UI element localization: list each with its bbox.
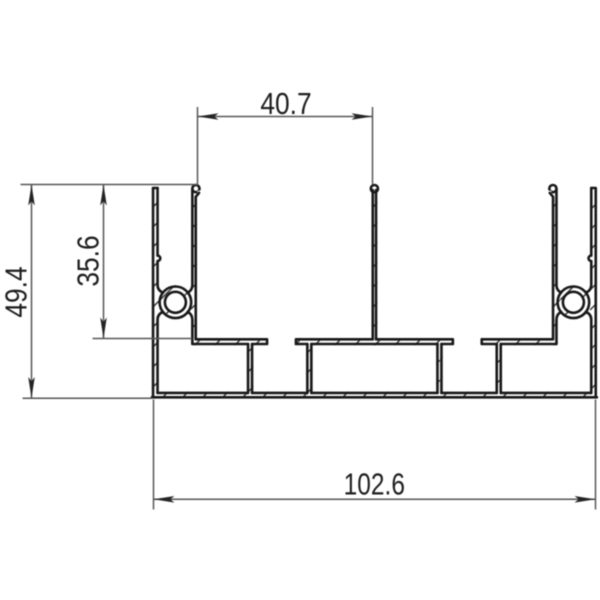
arrowhead 49.4 bottom bbox=[28, 377, 35, 398]
rib 3 edges bbox=[437, 344, 441, 393]
center fin faces bbox=[373, 190, 376, 339]
rib 4 fill bbox=[496, 344, 502, 394]
extension line 102.6 right bbox=[595, 400, 597, 510]
dimension line 102.6 bbox=[154, 498, 596, 500]
left screw boss annulus fill bbox=[158, 285, 192, 319]
bottom slab fill bbox=[152, 392, 597, 399]
svg-text:49.4: 49.4 bbox=[0, 266, 34, 317]
right inner fin fill bbox=[552, 190, 558, 345]
profile bottom outer edge bbox=[152, 396, 597, 399]
screw boss hole bbox=[165, 292, 186, 313]
center fin fill bbox=[372, 190, 378, 345]
extension line 35.6 bottom bbox=[93, 338, 193, 340]
svg-text:35.6: 35.6 bbox=[71, 235, 105, 286]
rib 2 fill bbox=[306, 344, 312, 394]
fin flare, right face, ledge L1 outline bbox=[188, 193, 267, 344]
svg-text:102.6: 102.6 bbox=[344, 467, 405, 501]
dimension line 35.6 bbox=[103, 185, 105, 339]
extension line 102.6 left bbox=[153, 400, 155, 510]
extension line 49.4 bottom bbox=[23, 397, 152, 399]
slab top edge segments bbox=[158, 392, 592, 395]
arrowhead 35.6 top bbox=[100, 185, 107, 206]
screw boss outer circle bbox=[160, 287, 192, 319]
rib 1 edges bbox=[248, 344, 252, 393]
right outer wall fill bbox=[590, 187, 597, 399]
left outer wall fill bbox=[152, 187, 159, 399]
ledge L3 fill bbox=[481, 338, 558, 345]
arrowhead 102.6 left bbox=[154, 496, 175, 503]
svg-text:40.7: 40.7 bbox=[260, 87, 311, 121]
extension line 40.7 left bbox=[197, 107, 199, 184]
right screw boss annulus fill bbox=[556, 285, 590, 319]
fin bead hook bbox=[192, 185, 199, 192]
extension line 40.7 right bbox=[372, 107, 374, 184]
center fin bead bbox=[371, 185, 378, 192]
rib 3 fill bbox=[436, 344, 442, 394]
dimension line 49.4 bbox=[31, 185, 33, 399]
center ledge L2 outline bbox=[296, 339, 453, 344]
lower-left fillet and wall inner edge lower segment bbox=[158, 312, 163, 393]
rib 1 fill bbox=[247, 344, 253, 394]
arrowhead 40.7 right bbox=[352, 113, 373, 120]
rib 2 edges bbox=[307, 344, 311, 393]
arrowhead 49.4 top bbox=[28, 185, 35, 206]
left inner fin fill bbox=[191, 190, 197, 345]
left wall inner edge upper with retaining bump and upper-left fillet bbox=[158, 188, 163, 293]
left wall outer edge and top cap bbox=[153, 188, 158, 397]
ledge L2 fill bbox=[295, 338, 454, 345]
top extension line bbox=[21, 184, 199, 186]
ledge L1 fill bbox=[191, 338, 268, 345]
right side of profile (mirror) bbox=[482, 185, 596, 397]
upper-right fillet and fin inner face upper segment bbox=[188, 189, 193, 292]
dimension line 40.7 bbox=[198, 116, 373, 118]
arrowhead 35.6 bottom bbox=[100, 318, 107, 339]
arrowhead 102.6 right bbox=[575, 496, 596, 503]
arrowhead 40.7 left bbox=[198, 113, 219, 120]
